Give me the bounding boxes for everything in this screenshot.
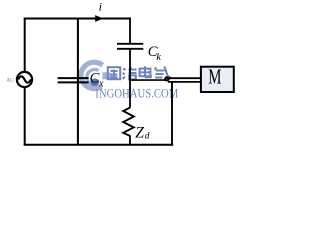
- resistor Zd zigzag: [123, 108, 134, 136]
- wire pair to M lower: [168, 81, 201, 83]
- watermark logo inner disc: [90, 79, 99, 86]
- svg-text:d: d: [145, 131, 150, 141]
- svg-text:Z: Z: [135, 125, 144, 142]
- svg-text:M: M: [208, 65, 221, 89]
- capacitor Ck plates: [117, 43, 143, 45]
- wire Ck branch upper: [129, 18, 131, 44]
- wire top horizontal: [24, 18, 131, 20]
- motor M box: [201, 67, 234, 92]
- wire left vertical upper: [24, 18, 26, 73]
- svg-text:i: i: [99, 0, 102, 14]
- wire middle vertical: [77, 18, 79, 146]
- connector dot: [164, 76, 170, 81]
- wire mid horizontal to connector: [129, 79, 165, 81]
- wire left vertical lower: [24, 87, 26, 146]
- current arrow: [95, 15, 103, 22]
- svg-text:x: x: [98, 79, 104, 90]
- watermark glyph HAO: [123, 67, 137, 79]
- svg-text:INGOHAUS.COM: INGOHAUS.COM: [95, 86, 178, 100]
- watermark glyph GUO: [108, 67, 120, 79]
- wire pair to M upper: [167, 77, 201, 79]
- svg-text:AC: AC: [6, 77, 14, 83]
- wire Ck to Zd: [129, 50, 131, 108]
- watermark glyph QI: [155, 67, 170, 79]
- wire bottom horizontal: [24, 144, 173, 146]
- svg-text:k: k: [156, 52, 161, 63]
- watermark glyph DIAN: [140, 66, 151, 77]
- wire Zd to bottom: [129, 136, 131, 146]
- wire right vertical: [171, 82, 173, 146]
- watermark logo outer ring: [81, 62, 103, 88]
- capacitor Cx plates: [58, 77, 89, 79]
- AC source: [17, 72, 32, 87]
- watermark logo right arm: [103, 72, 113, 79]
